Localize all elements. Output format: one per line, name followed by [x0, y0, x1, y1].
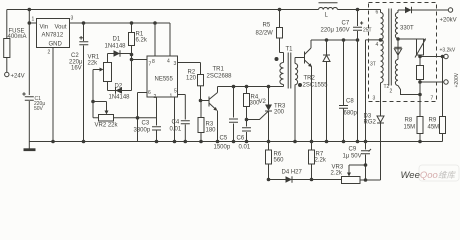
- svg-text:2SC1555: 2SC1555: [303, 83, 329, 89]
- svg-text:16V: 16V: [71, 66, 82, 72]
- svg-text:680p: 680p: [344, 111, 358, 117]
- svg-text:220μ: 220μ: [69, 59, 83, 65]
- terminal +3.2kV: [420, 56, 444, 58]
- T1 core: [288, 53, 291, 89]
- svg-text:330T: 330T: [400, 26, 414, 32]
- svg-text:Vin: Vin: [40, 25, 49, 31]
- svg-text:T1: T1: [286, 47, 294, 53]
- svg-text:3T: 3T: [370, 62, 376, 68]
- svg-text:6: 6: [376, 10, 379, 16]
- wire: C1 vertical: [28, 10, 30, 142]
- resistor R9 45M: [441, 55, 445, 59]
- svg-text:6.2k: 6.2k: [136, 38, 148, 44]
- node: R1 top: [130, 21, 134, 25]
- svg-text:1μ 50V: 1μ 50V: [343, 154, 362, 160]
- svg-text:120: 120: [186, 76, 197, 82]
- svg-text:45M: 45M: [428, 125, 440, 131]
- wire: pin1 to 7812: [29, 22, 36, 24]
- node: TR1 base: [199, 99, 203, 103]
- svg-text:6: 6: [148, 90, 151, 96]
- capacitor C1: [25, 97, 34, 101]
- svg-text:1: 1: [32, 17, 35, 23]
- svg-text:200: 200: [274, 110, 285, 116]
- svg-text:AN7812: AN7812: [42, 33, 64, 39]
- svg-text:TR1: TR1: [213, 67, 225, 73]
- wire: tap 4: [366, 40, 381, 142]
- resistor R6 560: [268, 142, 270, 180]
- T1 primary winding: [283, 53, 285, 63]
- svg-text:220μ 160V: 220μ 160V: [321, 28, 350, 34]
- wire: winding bottom pin2: [398, 86, 420, 95]
- regulator U1 AN7812: [37, 19, 70, 48]
- wire: bottom rail: [29, 141, 442, 143]
- capacitor C5: [232, 85, 236, 89]
- svg-text:C3: C3: [142, 121, 150, 127]
- wire: 7812 gnd to rail: [52, 48, 54, 142]
- resistor R3 180: [200, 101, 202, 142]
- svg-text:82/2W: 82/2W: [256, 31, 274, 37]
- svg-text:400mA: 400mA: [8, 34, 27, 40]
- svg-text:VR2 22k: VR2 22k: [95, 123, 119, 129]
- svg-text:C7: C7: [342, 21, 350, 27]
- svg-text:GND: GND: [49, 42, 63, 48]
- svg-text:+20kV: +20kV: [440, 18, 457, 24]
- wire: divider chain top: [398, 38, 420, 40]
- node: 7812 input junction: [28, 21, 32, 25]
- svg-text:0.01: 0.01: [170, 127, 182, 133]
- svg-text:L: L: [325, 13, 329, 19]
- svg-text:3: 3: [373, 96, 376, 102]
- svg-text:3: 3: [71, 16, 74, 22]
- svg-text:7: 7: [431, 96, 434, 102]
- diode HV rectifier: [398, 9, 449, 11]
- svg-text:WeeQoo维库: WeeQoo维库: [401, 170, 457, 181]
- svg-text:Vout: Vout: [55, 25, 67, 31]
- svg-text:15M: 15M: [404, 125, 416, 131]
- wire: pin7: [132, 59, 148, 61]
- T2 left winding: [380, 10, 382, 13]
- svg-text:R9: R9: [429, 118, 437, 124]
- T2 core: [389, 9, 392, 86]
- svg-text:1: 1: [170, 94, 173, 100]
- wire: TR2 collector line: [311, 39, 358, 41]
- capacitor C7 220u160V: [356, 8, 360, 12]
- svg-text:8: 8: [152, 59, 155, 65]
- terminal +24V: [5, 72, 9, 76]
- wire: pin8 pin4 to 12V rail: [153, 21, 157, 25]
- wire: pin2 with capacitor C3: [156, 97, 158, 142]
- T1 secondary winding: [294, 58, 296, 64]
- svg-text:1N4148: 1N4148: [105, 44, 127, 50]
- fuse F1: [4, 39, 10, 58]
- svg-text:+200V: +200V: [454, 72, 460, 87]
- inductor L: [319, 7, 338, 9]
- svg-text:+24V: +24V: [11, 74, 25, 80]
- resistor R4 300, capacitor C6: [245, 85, 249, 89]
- capacitor C9 1u 50V: [365, 142, 367, 181]
- svg-text:V2: V2: [259, 99, 267, 105]
- svg-text:2: 2: [390, 89, 393, 95]
- svg-text:R5: R5: [263, 23, 271, 29]
- node: pin7 junctions: [130, 53, 134, 57]
- svg-text:2.2k: 2.2k: [315, 158, 327, 164]
- wire: pin1 down: [174, 97, 176, 142]
- potentiometer VR2 22k: [93, 102, 107, 111]
- svg-text:180: 180: [206, 128, 217, 134]
- ground: [28, 142, 30, 149]
- svg-text:2SC2688: 2SC2688: [207, 74, 233, 80]
- wire: pin6: [138, 93, 148, 142]
- svg-text:3300p: 3300p: [134, 128, 151, 134]
- svg-text:25T: 25T: [363, 28, 372, 34]
- node: VR2 junction: [91, 100, 95, 104]
- transformer T2 dashed box: [369, 3, 437, 102]
- wire: T1 secondary to TR2 base: [295, 57, 305, 59]
- svg-text:C8: C8: [346, 99, 354, 105]
- svg-text:1500p: 1500p: [214, 145, 231, 151]
- wire: feedback bottom line: [267, 178, 271, 182]
- svg-text:+3.2kV: +3.2kV: [440, 48, 456, 54]
- svg-text:50V: 50V: [34, 106, 44, 112]
- node: C1 top junction: [28, 8, 32, 12]
- terminal +200V: [420, 81, 444, 83]
- svg-text:560: 560: [274, 158, 285, 164]
- terminal +20kV: [448, 8, 452, 12]
- svg-text:2.2k: 2.2k: [331, 171, 343, 177]
- svg-text:TR2: TR2: [304, 76, 316, 82]
- resistor R7 2.2k: [311, 142, 313, 180]
- svg-text:C6: C6: [237, 136, 245, 142]
- watermark: [419, 165, 459, 181]
- svg-text:R8: R8: [405, 118, 413, 124]
- timer U2 NE555: [147, 56, 178, 97]
- wire: top rail: [7, 9, 319, 11]
- svg-text:C2: C2: [71, 53, 79, 59]
- resistor R2 120: [178, 63, 201, 101]
- svg-text:C5: C5: [220, 136, 228, 142]
- resistor R5 82/2W: [278, 8, 282, 12]
- wire: C2 vertical: [83, 23, 85, 142]
- svg-text:D1: D1: [113, 37, 121, 43]
- wire: 12V rail from pin3: [70, 22, 171, 24]
- svg-text:NE555: NE555: [155, 77, 174, 83]
- T2 right winding: [397, 10, 399, 13]
- thyristor V2: [267, 85, 271, 89]
- svg-text:1N4148: 1N4148: [109, 95, 131, 101]
- svg-text:C4: C4: [172, 120, 180, 126]
- wire: left input vertical: [6, 10, 8, 73]
- wire: collector line: [218, 86, 284, 88]
- diode D3 RG2: [380, 86, 382, 181]
- svg-text:3: 3: [174, 61, 177, 67]
- svg-text:4: 4: [376, 42, 379, 48]
- svg-text:C9: C9: [349, 147, 357, 153]
- capacitor C2: [79, 42, 88, 45]
- node: C2 top: [82, 21, 86, 25]
- svg-text:4: 4: [167, 59, 170, 65]
- diode damper: [325, 38, 329, 42]
- resistor R8 15M: [417, 117, 423, 134]
- resistor divider lower: [417, 66, 424, 80]
- svg-text:D4 H27: D4 H27: [282, 170, 303, 176]
- svg-text:0.01: 0.01: [239, 145, 251, 151]
- resistor R1 6.2k: [131, 23, 133, 60]
- trimmer divider upper: [417, 39, 424, 55]
- wire: pin5 down with capacitor C4: [178, 95, 186, 142]
- capacitor C8 680p: [342, 38, 346, 42]
- node: pin6/VR2/C3 junction: [136, 116, 140, 120]
- svg-text:5: 5: [174, 89, 177, 95]
- svg-text:2: 2: [48, 50, 51, 56]
- svg-text:22k: 22k: [88, 61, 99, 67]
- diode in T2 winding: [394, 49, 401, 55]
